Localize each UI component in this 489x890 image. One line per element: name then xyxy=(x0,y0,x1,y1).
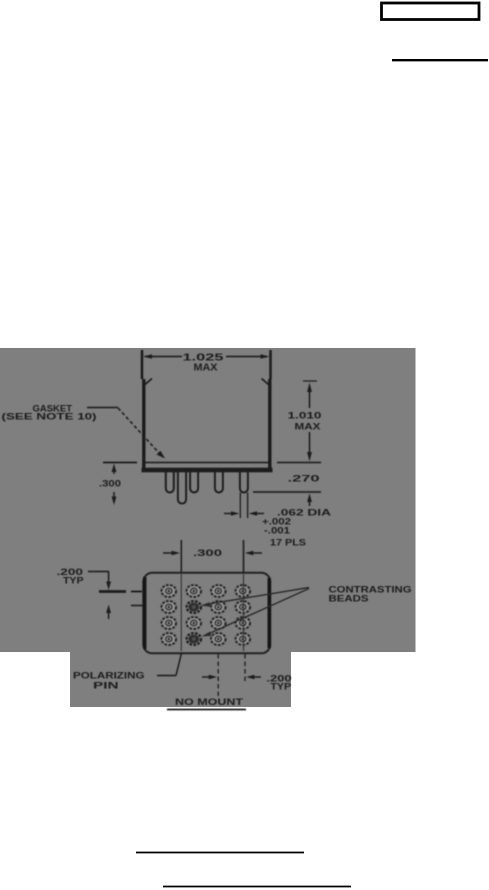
footer rule 1 xyxy=(136,852,304,854)
leader to contrasting bead row4 xyxy=(207,589,309,635)
dimension .270 (right of pins) xyxy=(253,463,321,507)
contact bead at (168.8,623) xyxy=(162,617,176,629)
svg-text:TYP: TYP xyxy=(63,576,84,586)
svg-text:.270: .270 xyxy=(288,474,320,485)
contrasting bead at (193.8,607) xyxy=(187,601,201,613)
svg-text:POLARIZING: POLARIZING xyxy=(73,671,145,681)
contact bead at (218.3,607) xyxy=(211,601,225,613)
corner ticks xyxy=(145,379,152,385)
svg-text:(SEE NOTE 10): (SEE NOTE 10) xyxy=(2,412,97,422)
svg-text:TYP: TYP xyxy=(271,682,292,692)
svg-text:.300: .300 xyxy=(193,548,222,559)
contact bead at (242.8,639) xyxy=(236,633,250,645)
dimension .300 (pin length, left) xyxy=(103,463,137,506)
pin 1 (side view) xyxy=(166,471,174,493)
contact bead at (242.8,607) xyxy=(236,601,250,613)
svg-text:.300: .300 xyxy=(99,479,121,490)
polarizing pin leader xyxy=(157,653,182,676)
contact bead at (168.8,639) xyxy=(162,633,176,645)
contact bead at (168.8,591) xyxy=(162,585,176,597)
footer rule 2 xyxy=(163,886,351,888)
pin 3 (side view) xyxy=(215,471,223,493)
contact bead at (193.8,623) xyxy=(187,617,201,629)
svg-text:PIN: PIN xyxy=(93,681,119,691)
polarizing pin (long, side view) xyxy=(178,471,186,504)
contact bead at (242.8,591) xyxy=(236,585,250,597)
centerline through polarizing pin column xyxy=(180,574,182,651)
svg-text:1.010: 1.010 xyxy=(288,411,322,422)
gasket leader line xyxy=(87,408,165,459)
contact bead at (168.8,607) xyxy=(162,601,176,613)
relay can body (side view) xyxy=(142,379,273,471)
scan panel main (gray background of figure) xyxy=(0,348,416,652)
centerline through pin column 4 xyxy=(243,574,245,651)
contact bead at (218.3,623) xyxy=(211,617,225,629)
svg-text:-.001: -.001 xyxy=(264,526,290,536)
svg-text:BEADS: BEADS xyxy=(329,594,369,604)
pin 4 (side view) xyxy=(240,471,248,493)
contact bead at (242.8,623) xyxy=(236,617,250,629)
contact bead at (218.3,591) xyxy=(211,585,225,597)
title box (top right) xyxy=(382,3,480,20)
scan panel lower tab xyxy=(70,650,291,707)
can bottom edge xyxy=(142,468,273,473)
svg-text:NO MOUNT: NO MOUNT xyxy=(175,697,243,708)
contrasting bead at (193.8,639) xyxy=(187,633,201,645)
dimension .300 (footprint, top) xyxy=(163,540,262,572)
svg-text:MAX: MAX xyxy=(295,422,322,433)
header rule xyxy=(392,59,488,61)
dimension .200 TYP (bottom, column pitch) xyxy=(202,654,261,699)
dimension 1.025 MAX (top width of can) xyxy=(142,350,271,379)
footprint outline (bottom view) xyxy=(143,573,270,654)
dimension 1.010 MAX (height, right) xyxy=(303,381,317,462)
contact bead at (193.8,591) xyxy=(187,585,201,597)
svg-text:MAX: MAX xyxy=(194,363,218,374)
dimension .200 TYP (left, row pitch) xyxy=(88,572,143,620)
svg-text:17 PLS: 17 PLS xyxy=(270,538,306,548)
dimension .062 DIA pin diameter callout xyxy=(224,493,264,519)
leader to contrasting bead row2 xyxy=(201,588,310,637)
contact beads 4x4 grid xyxy=(162,585,250,645)
pin 2 (side view) xyxy=(190,471,198,493)
flange top line xyxy=(143,462,271,464)
contact bead at (218.3,639) xyxy=(211,633,225,645)
